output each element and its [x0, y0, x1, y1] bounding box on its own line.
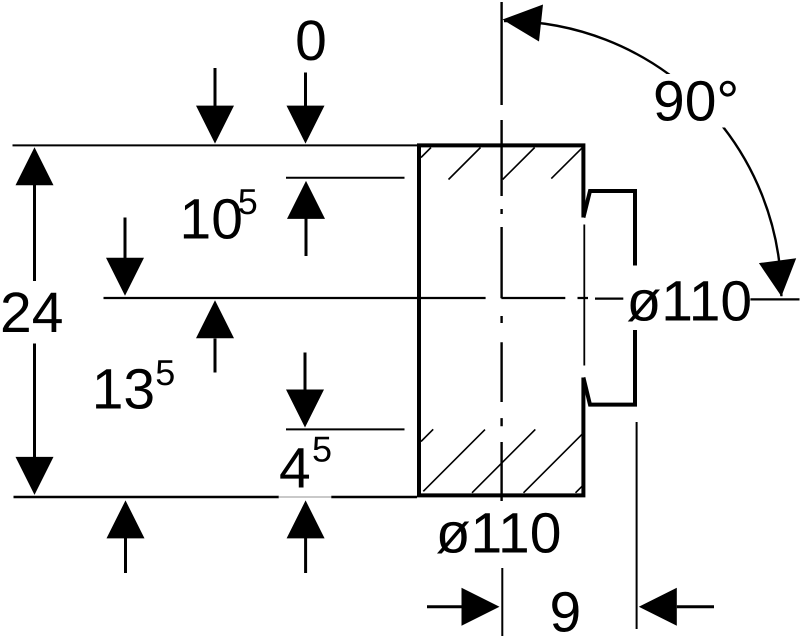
hatch line bottom 4 [524, 432, 585, 493]
hatch line top 4 [551, 148, 582, 179]
arrow right 9 dim [427, 605, 462, 608]
hatch line top 2 [449, 148, 481, 180]
arc arrowhead top [503, 5, 544, 42]
dimension line bottom level left part [14, 496, 279, 498]
svg-text:0: 0 [295, 9, 327, 73]
white mask for 90 deg label [648, 74, 742, 128]
arrow left 9 dim [677, 605, 714, 608]
body right edge thin line [583, 225, 585, 366]
hatch line top 3 [503, 148, 535, 180]
svg-text:5: 5 [312, 429, 332, 470]
vertical center line [500, 2, 502, 501]
arrow up at center line [214, 339, 217, 373]
horizontal center line [104, 298, 800, 299]
svg-text:ø110: ø110 [626, 270, 752, 334]
hatch line bottom 1 [421, 429, 433, 441]
dimension line 10.5 level [286, 177, 405, 179]
hatch line bottom 2 [423, 430, 485, 492]
arrow up at bottom line left [124, 538, 127, 573]
extension line 9 dim left [501, 568, 503, 636]
svg-text:5: 5 [155, 352, 175, 393]
arrow down at center line [124, 218, 127, 259]
extension line 9 dim right [636, 422, 638, 629]
hatch line bottom 5 [576, 484, 585, 493]
svg-text:ø110: ø110 [436, 502, 562, 566]
svg-text:9: 9 [550, 580, 582, 639]
svg-text:10: 10 [180, 188, 243, 252]
arrow down at 4.5 line [304, 353, 307, 391]
arrow down at 0 line right [304, 73, 307, 108]
arrow down 24 dim bottom [33, 344, 36, 458]
svg-text:5: 5 [238, 181, 258, 222]
arrow up 24 dim top [33, 185, 36, 281]
arrow up at 10.5 line [305, 219, 308, 257]
spigot outline [583, 191, 635, 405]
arrow down at 0 line left [214, 68, 217, 107]
dimension line bottom level right part [331, 496, 417, 498]
dimension line 4.5 level [286, 428, 405, 430]
svg-text:24: 24 [0, 281, 63, 345]
arc arrowhead bottom [759, 258, 796, 296]
arrow up at bottom line right [304, 538, 307, 573]
angle arc 90 deg [504, 21, 781, 296]
svg-text:13: 13 [92, 358, 155, 422]
body outline [419, 145, 583, 495]
svg-text:4: 4 [279, 437, 311, 501]
svg-text:90°: 90° [653, 70, 739, 134]
dimension line 0 level [13, 144, 420, 146]
hatch line bottom 3 [472, 429, 535, 492]
dimension line bottom level faint part [279, 496, 332, 498]
hatch line top 1 [421, 148, 431, 158]
